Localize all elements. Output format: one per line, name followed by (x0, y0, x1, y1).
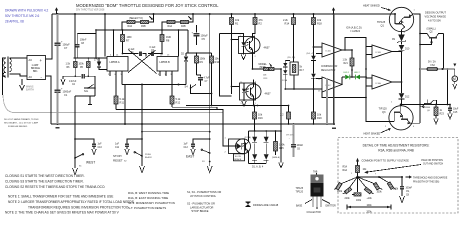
svg-text:R16: R16 (258, 116, 263, 120)
svg-text:HEAT SINKED: HEAT SINKED (364, 132, 381, 136)
svg-text:2.2k: 2.2k (283, 18, 289, 22)
label fan values (337, 173, 399, 202)
wire top cluster bus (74, 57, 108, 59)
svg-text:R9: R9 (200, 60, 204, 64)
diode D5 (283, 57, 295, 67)
ground arrow cluster (61, 76, 65, 84)
diode D2 (181, 53, 188, 85)
svg-text:NOTE 3: THE TIME CHAIN AS SET: NOTE 3: THE TIME CHAIN AS SET GIVES 50 M… (5, 211, 120, 215)
svg-text:0.1uF: 0.1uF (150, 47, 157, 49)
wire rail to Q2 column (414, 14, 420, 123)
resistor R7 (121, 30, 133, 54)
resistor R3A detail (342, 162, 367, 178)
label design output (425, 11, 447, 23)
wire IC4B output (392, 51, 402, 53)
svg-text:TIP120: TIP120 (379, 107, 388, 111)
capacitor C4 (122, 49, 146, 57)
wire R4 to timing node (162, 22, 167, 30)
resistor fan 3 (354, 193, 361, 196)
svg-text:1M0: 1M0 (166, 35, 172, 39)
resistor R13 (253, 64, 282, 80)
svg-text:4: 4 (254, 35, 256, 37)
capacitor C2 (69, 74, 84, 86)
svg-text:1uF: 1uF (184, 144, 189, 146)
svg-text:CLOSING S3 STARTS THE EAST DIR: CLOSING S3 STARTS THE EAST DIRECTION TIM… (5, 180, 84, 184)
svg-text:R4A: R4A (168, 25, 173, 28)
svg-text:BASE: BASE (296, 205, 303, 208)
svg-text:1uF: 1uF (115, 144, 120, 146)
svg-text:AC: AC (29, 75, 33, 79)
svg-text:100k: 100k (337, 191, 343, 193)
wire +V top rail (52, 13, 395, 15)
diode D4B (311, 60, 316, 89)
resistor R6 (66, 58, 78, 76)
svg-text:100k: 100k (393, 189, 399, 191)
svg-text:COMPARATOR: COMPARATOR (321, 65, 338, 68)
SECTION: bottom notes (5, 174, 134, 215)
fuse FS2 (420, 61, 455, 71)
svg-text:100k: 100k (366, 205, 372, 207)
svg-text:'STOP' BRAKE: 'STOP' BRAKE (191, 209, 209, 213)
wire output loop upper (220, 34, 244, 97)
svg-text:0.47uF: 0.47uF (69, 81, 77, 83)
resistor fan 2 (344, 187, 351, 194)
svg-text:28 APRIL, 08: 28 APRIL, 08 (5, 20, 24, 24)
svg-text:COMMON POINT TO SUPPLY VOLTAGE: COMMON POINT TO SUPPLY VOLTAGE (362, 159, 410, 163)
capacitor C10 (74, 138, 102, 154)
minus tick under C1 bus end (56, 127, 60, 129)
note diodes are 1N4148 (246, 202, 279, 207)
svg-text:R1: R1 (235, 22, 239, 26)
svg-text:S2 - PUSHBUTTON OR: S2 - PUSHBUTTON OR (187, 202, 215, 206)
capacitor C9 (400, 177, 413, 203)
resistor R11 pull (114, 76, 125, 110)
diode D1B (264, 131, 269, 154)
svg-text:C1: C1 (64, 93, 68, 97)
svg-text:47k: 47k (259, 18, 264, 22)
svg-text:100k: 100k (279, 143, 285, 147)
svg-text:PUSH: PUSH (145, 154, 151, 156)
wire mains run (gray) (3, 95, 223, 113)
label common point (356, 158, 409, 163)
wire bridge minus output to 0V bus (46, 76, 52, 124)
wire cross-couple X (128, 50, 157, 74)
svg-text:C11: C11 (115, 147, 120, 149)
svg-text:IC 4B: IC 4B (376, 52, 382, 54)
wire R3 to timing node (122, 22, 127, 30)
wire Q2 collector down (443, 34, 445, 70)
svg-text:100uF: 100uF (297, 145, 304, 147)
svg-text:100k: 100k (79, 64, 85, 66)
resistor R4A (167, 14, 193, 28)
svg-text:C7: C7 (64, 46, 68, 50)
wire R16 into grid (254, 124, 256, 131)
svg-text:(D5, D6): (D5, D6) (288, 57, 296, 59)
opto U3 EAST (225, 131, 252, 164)
svg-text:MODERNIZED "BOM" THROTTLE DESI: MODERNIZED "BOM" THROTTLE DESIGNED FOR J… (76, 3, 219, 8)
op-amp IC4D (322, 43, 342, 57)
svg-text:1 AMP: 1 AMP (32, 64, 39, 67)
resistor R20 (312, 112, 323, 120)
transistor Q2 (420, 27, 444, 44)
wire under-IC bus (186, 105, 289, 107)
resistor fan 5 (373, 182, 379, 190)
diode D9 zener (392, 35, 406, 45)
wire rail to IC1A top (104, 14, 106, 57)
earth symbol (20, 79, 35, 92)
opto U5 (240, 82, 272, 106)
svg-text:1: 1 (225, 138, 227, 140)
svg-text:2N3906: 2N3906 (423, 107, 431, 109)
switch S4 (185, 85, 213, 95)
note 240V mains (4, 118, 39, 128)
led LED1 (342, 72, 355, 79)
svg-text:R2: R2 (259, 22, 263, 26)
svg-text:1M0: 1M0 (127, 35, 133, 39)
node dots on 0V bus (57, 123, 336, 125)
svg-text:1.5k: 1.5k (66, 64, 71, 66)
svg-text:MODEL: MODEL (259, 64, 268, 66)
svg-text:R8: R8 (166, 39, 170, 43)
svg-text:D7, A: D7, A (282, 79, 288, 82)
resistor R21 (343, 50, 355, 77)
wire R18 pulldown (313, 89, 315, 124)
svg-text:R14: R14 (285, 22, 290, 26)
svg-text:R5: R5 (80, 67, 84, 69)
svg-text:LM556 A: LM556 A (110, 60, 120, 64)
svg-text:2: 2 (225, 152, 227, 154)
note: drawn-with text (5, 9, 48, 24)
wire opto U5 led input (232, 86, 240, 88)
wire under-box bus (122, 76, 186, 86)
svg-text:100k: 100k (200, 57, 206, 61)
op-amp IC4C (318, 77, 342, 93)
svg-text:R6: R6 (67, 67, 71, 69)
resistor R10 (210, 53, 220, 106)
diode D1 (94, 58, 107, 70)
svg-text:5.1k: 5.1k (120, 97, 126, 101)
svg-text:DETAIL OF TIME ADJUSTMENT RESI: DETAIL OF TIME ADJUSTMENT RESISTORS: (363, 144, 430, 148)
wire feedback column (366, 44, 372, 98)
svg-text:M: M (453, 77, 456, 81)
wire bridge plus output (46, 14, 53, 59)
wire output node bus (401, 104, 450, 106)
svg-text:THRESHOLD AND DISCHARGE: THRESHOLD AND DISCHARGE (413, 177, 448, 180)
svg-text:C10: C10 (98, 147, 103, 149)
svg-text:BRAKE: BRAKE (234, 158, 242, 161)
capacitor C15 (448, 105, 459, 120)
svg-text:PIN (BOTH OF THE 556): PIN (BOTH OF THE 556) (413, 182, 439, 184)
svg-text:4.8 TO 50V: 4.8 TO 50V (428, 19, 441, 23)
label wiper note (364, 159, 443, 174)
wire comparator inputs (285, 47, 322, 89)
svg-text:BR1: BR1 (33, 71, 38, 73)
wire IC1A bottom pins (110, 71, 122, 76)
svg-text:MH (BR): MH (BR) (286, 135, 294, 137)
op IC1B LM556B (157, 54, 178, 75)
svg-text:10k: 10k (317, 18, 322, 22)
node rotary hub (356, 176, 358, 178)
svg-text:Q6: Q6 (427, 110, 431, 112)
diode D1A (252, 131, 257, 154)
transistor Q5 2N3906 (420, 100, 437, 112)
svg-text:R4A: R4A (342, 169, 347, 172)
diode D3 (252, 154, 257, 163)
package TIP120 outline (296, 171, 337, 215)
svg-text:R10: R10 (215, 60, 220, 64)
svg-text:4N37: 4N37 (264, 46, 271, 50)
minus tick at bus right end (332, 127, 336, 129)
svg-text:7: 7 (375, 174, 377, 176)
svg-text:100k: 100k (377, 192, 383, 194)
svg-text:NOTE 1: SMALL TRANSFORMER FOR: NOTE 1: SMALL TRANSFORMER FOR SET TIME A… (8, 194, 113, 198)
svg-text:LED 1: LED 1 (344, 72, 351, 74)
label detail title (363, 144, 430, 153)
svg-text:17V: 17V (94, 60, 99, 62)
svg-text:R13: R13 (264, 78, 269, 80)
svg-text:S4: S4 (185, 85, 189, 89)
svg-text:EARTH: EARTH (26, 89, 34, 92)
wire mid bus (142, 131, 210, 133)
switch S2 STOP (113, 152, 152, 173)
svg-text:R20: R20 (317, 116, 322, 120)
svg-text:TAB: TAB (313, 171, 318, 174)
wire Q1 collector column (401, 32, 403, 35)
svg-text:HEAT SINKED: HEAT SINKED (363, 4, 380, 8)
svg-text:1k: 1k (440, 110, 443, 112)
svg-text:TRANSFORMER REQUIRES SOME INVE: TRANSFORMER REQUIRES SOME INVERSION PROT… (28, 205, 129, 209)
svg-text:D9: D9 (392, 39, 396, 41)
wire comparator lower bus (322, 92, 366, 98)
svg-text:2.2: 2.2 (280, 113, 284, 117)
svg-text:D2: D2 (181, 54, 185, 56)
wire opto U5 emitter (253, 96, 255, 106)
svg-text:R12: R12 (176, 101, 181, 105)
svg-text:FUSED AS NEEDED: FUSED AS NEEDED (8, 125, 28, 128)
opto U2 (239, 35, 271, 58)
capacitor C6 (286, 124, 304, 157)
switch S3 EAST (186, 139, 212, 173)
svg-text:S1: S1 (79, 166, 82, 168)
svg-text:3: 3 (404, 32, 406, 34)
resistor fan 4 (364, 187, 371, 194)
capacitor C11 (115, 138, 143, 154)
wire loop outer (116, 110, 230, 147)
svg-text:C5: C5 (202, 37, 206, 41)
svg-text:DRAWN WITH PULSONIX 4.2: DRAWN WITH PULSONIX 4.2 (5, 9, 48, 13)
resistor R16 pull (253, 106, 264, 125)
resistor R3B (129, 16, 153, 28)
wire reset feed vertical (209, 14, 211, 139)
capacitor C3 (148, 47, 163, 56)
dashed detail border (338, 138, 458, 214)
svg-text:S3: S3 (202, 161, 205, 163)
op-amp IC4B (372, 45, 392, 58)
svg-text:1000uF: 1000uF (63, 90, 72, 94)
svg-text:1: 1 (391, 102, 393, 104)
svg-text:S4L: S4L (84, 91, 89, 93)
wire opto U5 collector stub (253, 80, 255, 84)
svg-text:+: + (289, 138, 291, 140)
svg-text:CLOSING S1 STARTS THE WEST DIR: CLOSING S1 STARTS THE WEST DIRECTION TIM… (5, 174, 85, 178)
dimension bracket (347, 205, 391, 214)
svg-text:R11: R11 (120, 101, 125, 105)
svg-text:S1-3: MOMENTARY PUSHBUTTON: S1-3: MOMENTARY PUSHBUTTON (128, 201, 175, 205)
svg-text:R4A, B: EAST RUNNING TIME: R4A, B: EAST RUNNING TIME (128, 196, 168, 200)
wire hub to output (358, 176, 403, 178)
wire gray net (326, 78, 328, 124)
resistor R5 (79, 58, 91, 76)
svg-text:1uF: 1uF (98, 144, 103, 146)
svg-text:IC 4D: IC 4D (326, 51, 332, 53)
resistor R2 (253, 14, 264, 37)
svg-text:C8: C8 (406, 195, 410, 197)
wire IC1B bottom pins (160, 71, 172, 76)
svg-text:JOYSTICK CONTROL: JOYSTICK CONTROL (190, 194, 217, 198)
motor M1 (452, 64, 458, 89)
svg-text:1k8: 1k8 (263, 75, 267, 77)
svg-text:R7: R7 (126, 39, 130, 43)
svg-text:NOTE 2: LARGER TRANSFORMER APP: NOTE 2: LARGER TRANSFORMER APPROPRIATELY… (8, 200, 134, 204)
svg-text:(D7, A): (D7, A) (245, 136, 252, 139)
svg-text:C2: C2 (72, 84, 76, 86)
svg-text:OUT AND SWITCH: OUT AND SWITCH (423, 163, 443, 166)
diode D12 (399, 93, 410, 106)
resistor R9 (195, 53, 206, 75)
resistor R14 (283, 14, 296, 62)
label box slow brake (234, 154, 245, 161)
svg-text:DIODES ARE 1N4148: DIODES ARE 1N4148 (253, 203, 279, 207)
svg-text:(SME A): (SME A) (272, 156, 280, 159)
svg-text:TIP125: TIP125 (377, 20, 386, 24)
resistor R18 (312, 14, 323, 47)
switch S1 WEST (73, 139, 96, 175)
svg-text:LM556 B: LM556 B (160, 60, 170, 64)
resistor R15 (272, 130, 285, 159)
svg-text:R4B: R4B (181, 26, 186, 28)
svg-text:100uF: 100uF (201, 34, 209, 38)
resistor box R17 (290, 62, 304, 90)
node dots on rail (57, 13, 335, 15)
svg-text:C9,: C9, (406, 191, 410, 193)
svg-text:AC: AC (29, 58, 33, 62)
svg-text:50V THROTTLE MK 2.6: 50V THROTTLE MK 2.6 (5, 14, 40, 18)
wire diode grid top (249, 130, 282, 132)
svg-text:IC 4A: IC 4A (376, 82, 382, 85)
svg-text:(SELECT #): (SELECT #) (129, 16, 143, 20)
svg-text:TIP120: TIP120 (296, 192, 304, 194)
wire cluster mid bus (63, 75, 95, 77)
svg-text:+10k: +10k (367, 198, 373, 200)
svg-text:2: 2 (385, 126, 387, 128)
svg-text:TIP125: TIP125 (296, 188, 304, 190)
svg-text:D1, A, B, 4: D1, A, B, 4 (252, 166, 264, 169)
wire secondary to bridge (10, 58, 28, 76)
svg-text:2: 2 (241, 103, 243, 105)
wire IC4D output loop (342, 38, 366, 51)
svg-text:2: 2 (255, 56, 257, 58)
resistor R8 (160, 30, 172, 54)
wire +V feed down (74, 14, 76, 58)
svg-text:DESIGN OUTPUT: DESIGN OUTPUT (425, 11, 446, 15)
svg-text:1.5k: 1.5k (343, 60, 348, 62)
svg-text:100k: 100k (356, 200, 362, 202)
svg-text:D12: D12 (405, 97, 410, 99)
svg-text:10k: 10k (258, 113, 263, 117)
svg-text:S2: S2 (124, 161, 127, 163)
svg-text:1: 1 (351, 173, 353, 175)
switch S5 (84, 85, 95, 94)
svg-text:C8: C8 (81, 43, 85, 45)
svg-text:4.7uF: 4.7uF (204, 78, 211, 80)
svg-text:IC4 (A,B,C,D): IC4 (A,B,C,D) (346, 26, 362, 30)
svg-text:10k: 10k (235, 18, 240, 22)
wire timing node row (77, 30, 188, 58)
svg-text:R3A, R3B and R4A, R4B: R3A, R3B and R4A, R4B (378, 149, 413, 153)
svg-text:10k: 10k (317, 113, 322, 117)
svg-text:+: + (192, 32, 194, 35)
svg-text:10k: 10k (363, 169, 368, 171)
svg-text:R3A: R3A (128, 25, 133, 28)
svg-text:S1, S3 - PUSHBUTTONS OR: S1, S3 - PUSHBUTTONS OR (187, 190, 221, 194)
svg-text:1: 1 (255, 103, 257, 105)
svg-text:100nF: 100nF (80, 40, 87, 42)
svg-text:= LM324: = LM324 (350, 29, 361, 33)
wire diode grid bottom (249, 163, 267, 165)
svg-text:S-T: PUSHBUTTON RESETS: S-T: PUSHBUTTON RESETS (128, 206, 166, 210)
svg-text:C12: C12 (184, 147, 189, 149)
svg-text:5V / 2A: 5V / 2A (428, 61, 436, 64)
transistor Q1 TIP125 (377, 7, 416, 34)
svg-text:CLOSING S2 RESETS THE TIMERS A: CLOSING S2 RESETS THE TIMERS AND STOPS T… (5, 185, 105, 189)
svg-text:CW/A OR POSITION: CW/A OR POSITION (421, 159, 443, 162)
resistor fan 6 (387, 182, 393, 190)
svg-text:WEST: WEST (86, 161, 95, 165)
svg-text:Q1: Q1 (381, 24, 385, 28)
resistor R4B (181, 17, 192, 29)
svg-text:COLLECTOR: COLLECTOR (307, 212, 322, 214)
svg-text:1: 1 (414, 10, 416, 12)
wire right cluster top (186, 52, 212, 54)
svg-text:R3A: R3A (342, 166, 347, 169)
svg-text:C6: C6 (297, 149, 301, 151)
svg-text:Q2: Q2 (430, 32, 434, 34)
svg-text:SECONDARY - 12 & 18 VOLT 1 AMP: SECONDARY - 12 & 18 VOLT 1 AMP (4, 122, 39, 125)
svg-text:R18: R18 (317, 22, 322, 26)
svg-text:220k: 220k (345, 198, 351, 200)
svg-text:FS2: FS2 (431, 65, 436, 67)
svg-text:R21: R21 (344, 63, 349, 65)
label heat sinked top (363, 4, 391, 11)
wire IC4A output (392, 81, 402, 83)
wire into IC1B top pin (178, 30, 180, 57)
svg-text:R23: R23 (440, 114, 445, 116)
svg-text:LARGE ACTUATOR: LARGE ACTUATOR (190, 205, 214, 209)
svg-text:4: 4 (413, 126, 415, 128)
wire opto U2 emitter to chain (252, 49, 254, 69)
label threshold (406, 175, 448, 183)
diode D10 (399, 45, 410, 93)
power arrow left (56, 10, 58, 14)
wire thick reference (333, 14, 335, 124)
resistor R19 pull (280, 105, 291, 124)
svg-text:LED 2: LED 2 (354, 72, 361, 74)
svg-text:RESET: RESET (113, 159, 123, 163)
ground arrow under U2 (241, 46, 245, 60)
svg-text:5k: 5k (300, 67, 303, 69)
transformer T1 (3, 57, 11, 78)
label heat sinked bottom (364, 128, 391, 136)
